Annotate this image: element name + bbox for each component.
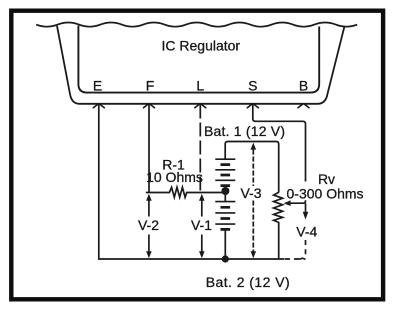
svg-text:F: F (146, 78, 155, 94)
socket contact at terminal B (298, 104, 309, 108)
socket contact at terminal S (247, 104, 258, 108)
svg-text:Bat. 1 (12 V): Bat. 1 (12 V) (204, 123, 285, 139)
dashed right end of bottom bus wire (285, 258, 306, 260)
socket contact at terminal E (93, 104, 104, 108)
voltmeter arrow V4 lower dashed (300, 240, 306, 259)
svg-text:0-300 Ohms: 0-300 Ohms (287, 185, 364, 201)
junction dot at battery center tap node (221, 187, 229, 195)
svg-text:10 Ohms: 10 Ohms (146, 169, 203, 185)
wire from terminal E down and along bottom ground bus (99, 104, 284, 259)
svg-text:S: S (248, 78, 257, 94)
svg-text:V-2: V-2 (138, 217, 159, 233)
svg-text:V-4: V-4 (296, 223, 317, 239)
svg-text:V-1: V-1 (191, 217, 212, 233)
wire segment to Rv wiper arrow (289, 200, 306, 203)
svg-text:Bat. 2 (12 V): Bat. 2 (12 V) (206, 274, 290, 290)
svg-text:IC Regulator: IC Regulator (162, 38, 241, 54)
svg-text:L: L (196, 78, 204, 94)
voltmeter arrow V1 (199, 194, 205, 258)
svg-text:V-3: V-3 (240, 185, 261, 201)
battery BT1 Bat.1 12V plates (215, 159, 235, 185)
torn-edge wavy line above IC regulator (36, 23, 357, 27)
socket contact at terminal L (195, 104, 206, 108)
resistor R1 (R-1 10 Ohms) with wire to battery junction (146, 187, 226, 197)
IC regulator U1 body outline (78, 26, 319, 93)
wire from terminal F down to R-1 (148, 104, 150, 193)
svg-text:B: B (299, 78, 308, 94)
Rv wiper arrowhead (284, 200, 291, 206)
socket contact at terminal F (144, 104, 155, 108)
wire from terminal S right and down to Rv wiper (253, 104, 306, 182)
voltmeter arrow V3 dashed (251, 143, 257, 259)
regulator socket tray outline (57, 26, 345, 104)
battery BT2 Bat.2 12V plates (215, 202, 235, 230)
svg-text:E: E (93, 78, 102, 94)
wire from terminal L down to R-1 node (199, 105, 201, 193)
wire from battery BT1 top to Rv top (225, 142, 279, 193)
voltmeter arrow V2 (146, 194, 152, 258)
wire battery BT2 bottom to ground bus (224, 229, 226, 259)
voltmeter arrow V4 upper (303, 203, 309, 219)
wire battery center tap (224, 186, 226, 202)
rheostat RV (Rv 0-300 Ohms) zigzag with wire to bottom bus (274, 192, 283, 259)
junction dot at ground bus node (222, 255, 229, 262)
